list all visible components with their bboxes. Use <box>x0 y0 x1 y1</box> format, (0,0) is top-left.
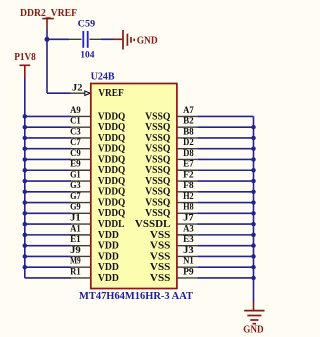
svg-text:C59: C59 <box>78 19 96 30</box>
svg-text:P1V8: P1V8 <box>14 51 36 63</box>
svg-text:J7: J7 <box>183 213 194 224</box>
svg-text:VSSQ: VSSQ <box>145 208 170 219</box>
svg-text:VDD: VDD <box>98 230 119 241</box>
svg-text:VDDQ: VDDQ <box>98 133 125 144</box>
svg-text:DDR2_VREF: DDR2_VREF <box>20 7 77 19</box>
svg-text:P9: P9 <box>183 266 194 277</box>
svg-text:E9: E9 <box>70 159 81 170</box>
svg-text:C3: C3 <box>70 126 81 137</box>
svg-text:MT47H64M16HR-3 AAT: MT47H64M16HR-3 AAT <box>79 291 193 302</box>
svg-text:G7: G7 <box>70 191 81 202</box>
svg-text:A3: A3 <box>183 223 194 234</box>
svg-text:VSSQ: VSSQ <box>145 197 170 208</box>
svg-text:VDD: VDD <box>98 262 119 273</box>
svg-text:R1: R1 <box>70 266 81 277</box>
svg-text:VREF: VREF <box>98 88 124 99</box>
svg-text:VDDQ: VDDQ <box>98 122 125 133</box>
svg-text:C7: C7 <box>70 137 81 148</box>
svg-text:J9: J9 <box>70 245 81 256</box>
svg-text:VDD: VDD <box>98 241 119 252</box>
svg-text:GND: GND <box>137 36 158 47</box>
svg-text:C9: C9 <box>70 148 81 159</box>
svg-text:E3: E3 <box>183 234 194 245</box>
svg-text:VDDQ: VDDQ <box>98 176 125 187</box>
svg-text:VSSQ: VSSQ <box>145 165 170 176</box>
svg-text:G1: G1 <box>70 169 81 180</box>
svg-text:M9: M9 <box>70 256 81 267</box>
svg-text:E1: E1 <box>70 234 81 245</box>
svg-text:D8: D8 <box>183 148 194 159</box>
svg-text:H2: H2 <box>183 191 194 202</box>
svg-text:VSSDL: VSSDL <box>135 219 171 230</box>
svg-text:N1: N1 <box>183 256 194 267</box>
svg-text:VSS: VSS <box>150 251 171 262</box>
svg-text:E7: E7 <box>183 159 194 170</box>
svg-text:G3: G3 <box>70 180 81 191</box>
svg-text:VDDQ: VDDQ <box>98 197 125 208</box>
svg-text:VDDL: VDDL <box>98 219 125 230</box>
svg-text:VSSQ: VSSQ <box>145 111 170 122</box>
svg-text:GND: GND <box>243 325 263 336</box>
svg-text:VSS: VSS <box>150 262 171 273</box>
svg-text:U24B: U24B <box>91 72 115 83</box>
svg-text:VSSQ: VSSQ <box>145 133 170 144</box>
svg-text:VDDQ: VDDQ <box>98 111 125 122</box>
svg-text:VSSQ: VSSQ <box>145 122 170 133</box>
svg-text:VDD: VDD <box>98 251 119 262</box>
svg-text:VSS: VSS <box>150 230 171 241</box>
svg-text:D2: D2 <box>183 137 194 148</box>
svg-text:F2: F2 <box>183 169 194 180</box>
svg-text:VDDQ: VDDQ <box>98 208 125 219</box>
svg-text:VDDQ: VDDQ <box>98 154 125 165</box>
svg-text:VDDQ: VDDQ <box>98 144 125 155</box>
svg-text:J1: J1 <box>70 213 81 224</box>
svg-text:VSS: VSS <box>150 241 171 252</box>
svg-text:J3: J3 <box>183 245 194 256</box>
svg-text:B8: B8 <box>183 126 194 137</box>
svg-text:VSSQ: VSSQ <box>145 187 170 198</box>
svg-text:VSSQ: VSSQ <box>145 154 170 165</box>
svg-text:A9: A9 <box>70 105 81 116</box>
svg-text:VSS: VSS <box>150 273 171 284</box>
svg-text:H8: H8 <box>183 202 194 213</box>
svg-text:F8: F8 <box>183 180 194 191</box>
svg-text:VDDQ: VDDQ <box>98 187 125 198</box>
svg-text:A7: A7 <box>183 105 194 116</box>
svg-text:VDD: VDD <box>98 273 119 284</box>
svg-text:C1: C1 <box>70 116 81 127</box>
svg-text:A1: A1 <box>70 223 81 234</box>
svg-text:B2: B2 <box>183 116 194 127</box>
svg-text:J2: J2 <box>72 82 83 93</box>
svg-text:VSSQ: VSSQ <box>145 144 170 155</box>
svg-text:VSSQ: VSSQ <box>145 176 170 187</box>
svg-text:104: 104 <box>80 49 94 60</box>
svg-text:G9: G9 <box>70 202 81 213</box>
svg-text:VDDQ: VDDQ <box>98 165 125 176</box>
